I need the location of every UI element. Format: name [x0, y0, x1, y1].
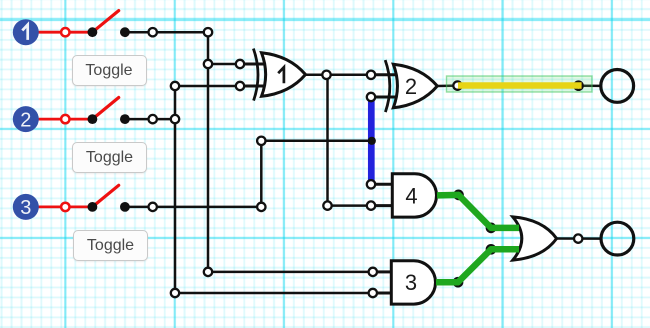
wire net7 AND3 output green wire: [436, 249, 519, 282]
wire net4 XOR1 output to XOR2 input A: [306, 74, 372, 77]
lamp L1: [601, 70, 634, 103]
input node 2: [13, 106, 39, 132]
lamp L2: [601, 222, 634, 255]
node corner (208,32): [204, 28, 212, 36]
switch SW1: [39, 11, 149, 38]
svg-text:3: 3: [405, 270, 417, 295]
wire net6 AND4 output green wire: [437, 195, 519, 228]
wire net8 OR output stub: [557, 237, 602, 240]
terminal XOR2 input A: [367, 71, 375, 79]
toggle button SW2: [72, 142, 147, 173]
toggle button SW1: [72, 55, 147, 86]
and gate U3: [377, 261, 436, 304]
corner (175,86): [171, 82, 179, 90]
node sw2 terminal: [149, 115, 157, 123]
terminal XOR1 input A: [236, 60, 244, 68]
wire net1 branch to AND3 input A: [208, 271, 373, 274]
wire net1 switch1 horizontal to corner: [156, 31, 208, 34]
terminal AND3 input A: [369, 268, 377, 276]
selection box around yellow wire: [447, 76, 593, 92]
wire net2 branch to XOR1 input B: [175, 85, 240, 88]
input node 3: [13, 194, 39, 220]
input node 1: [13, 19, 39, 45]
wire net2 switch2 horizontal: [156, 118, 175, 121]
terminal AND4 input B: [367, 201, 375, 209]
terminal AND3 input B: [369, 289, 377, 297]
corner (208,272): [204, 268, 212, 276]
xor gate U1: [244, 49, 306, 101]
terminal AND3 output: [454, 278, 462, 286]
terminal AND4 output: [454, 191, 462, 199]
terminal OR input A: [487, 224, 495, 232]
wire net4 vertical x=327.5: [326, 75, 329, 206]
terminal OR input B: [487, 245, 495, 253]
junction (208,64): [204, 60, 212, 68]
wire net3 horizontal to blue junction: [261, 140, 372, 143]
terminal XOR1 output: [322, 71, 330, 79]
terminal XOR1 input B: [236, 82, 244, 90]
wire net3 vertical x=261: [260, 141, 263, 207]
switch SW3: [39, 185, 149, 212]
wire net3/blue selected vertical wire: [368, 101, 375, 181]
node sw3 terminal: [149, 203, 157, 211]
label gate 1: [278, 67, 284, 83]
svg-text:2: 2: [405, 74, 417, 99]
svg-text:4: 4: [405, 183, 417, 208]
wire net5 lamp1 input stub: [579, 84, 601, 87]
svg-text:2: 2: [20, 109, 31, 131]
corner (175,293): [171, 289, 179, 297]
wire net1 vertical x=208: [207, 32, 210, 272]
wire net2 branch to AND3 input B: [175, 292, 373, 295]
junction (175,119): [171, 115, 179, 123]
or gate U5: [513, 217, 557, 260]
toggle button SW3: [73, 230, 148, 261]
terminal XOR2 output: [453, 81, 461, 89]
svg-text:3: 3: [20, 197, 31, 219]
switch SW2: [39, 98, 149, 125]
wire net1 branch to XOR1 input A: [208, 63, 240, 66]
wire net5 selected yellow wire: [458, 82, 582, 89]
terminal AND4 input A: [367, 180, 375, 188]
wire net3 switch3 horizontal: [156, 206, 261, 209]
corner (327.5,205.6): [323, 201, 331, 209]
junction dot on blue wire: [368, 137, 376, 145]
wire net2 vertical x=175: [174, 86, 177, 293]
and gate U4: [375, 174, 436, 217]
terminal OR output: [574, 234, 582, 242]
wire net4 branch to AND4 input B: [328, 204, 372, 207]
terminal XOR2 input B: [367, 93, 375, 101]
corner (261,207): [257, 203, 265, 211]
corner (261,141): [257, 137, 265, 145]
xor gate U2: [375, 60, 437, 112]
wire net5 XOR2 output stub: [437, 84, 457, 87]
terminal lamp1 input: [574, 82, 582, 90]
node sw1 terminal: [149, 28, 157, 36]
